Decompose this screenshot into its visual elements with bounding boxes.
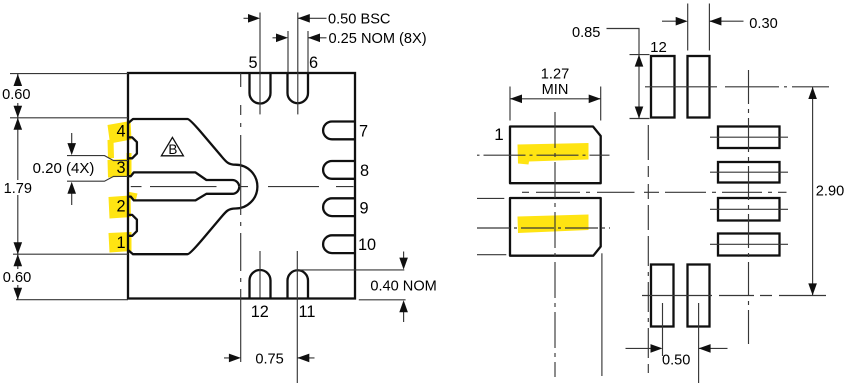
dimension 0.50 BSC bbox=[244, 17, 327, 19]
svg-text:0.75: 0.75 bbox=[255, 351, 283, 367]
pin 5 slot bbox=[250, 73, 271, 104]
svg-text:B: B bbox=[168, 142, 177, 157]
horizontal centerline left view bbox=[131, 186, 354, 188]
svg-text:2: 2 bbox=[116, 197, 125, 215]
svg-text:MIN: MIN bbox=[542, 82, 569, 98]
svg-text:0.40 NOM: 0.40 NOM bbox=[370, 278, 437, 294]
dimension 0.60 bottom bbox=[17, 254, 19, 300]
extension line package bottom bbox=[16, 299, 128, 301]
land pad 8 bbox=[718, 162, 780, 183]
svg-text:1.27: 1.27 bbox=[541, 66, 569, 82]
pin 6 centerline extension bbox=[297, 13, 299, 115]
land pad bottom left bbox=[651, 265, 674, 327]
lead bump between pins 4 and 3 bbox=[128, 137, 137, 158]
highlight pin3 label bbox=[108, 153, 132, 178]
svg-text:0.25 NOM (8X): 0.25 NOM (8X) bbox=[329, 31, 427, 47]
right pad 7 centerline bbox=[710, 136, 788, 138]
dimension 0.30 bbox=[688, 4, 710, 51]
right pads vertical centerline bbox=[748, 70, 750, 345]
top pads horizontal centerline bbox=[645, 86, 829, 88]
dimension 0.25 NOM (8X) bbox=[273, 37, 327, 39]
svg-text:9: 9 bbox=[359, 199, 368, 217]
pin 8 bbox=[323, 161, 355, 179]
right pad 9 centerline bbox=[710, 208, 788, 210]
land pad 9 bbox=[718, 198, 780, 221]
pin 5 centerline extension bbox=[259, 13, 261, 115]
land pad 11 top bbox=[688, 56, 710, 118]
svg-text:1: 1 bbox=[116, 234, 125, 252]
svg-text:0.50 BSC: 0.50 BSC bbox=[328, 11, 390, 27]
svg-text:3: 3 bbox=[116, 159, 125, 177]
svg-text:0.85: 0.85 bbox=[572, 25, 600, 41]
pin 6 edge extension lines bbox=[288, 31, 308, 73]
svg-text:11: 11 bbox=[299, 303, 316, 321]
svg-text:0.20 (4X): 0.20 (4X) bbox=[33, 160, 95, 177]
centerline pad 1 bbox=[477, 154, 480, 156]
lead bump between pins 2 and 1 bbox=[128, 215, 137, 236]
centerline pad 2 bbox=[477, 227, 610, 229]
package outline bbox=[128, 73, 355, 299]
svg-text:8: 8 bbox=[360, 162, 369, 180]
pin 12 centerline extension bbox=[259, 251, 261, 298]
pin 7 bbox=[323, 122, 355, 140]
svg-text:1: 1 bbox=[494, 125, 503, 144]
land pad bottom right bbox=[688, 265, 710, 327]
land pad 10 bbox=[718, 234, 780, 256]
extension line package top bbox=[10, 73, 128, 75]
dimension 0.50 bottom bbox=[626, 347, 728, 349]
dimension 1.79 bbox=[17, 118, 19, 254]
dimension 0.40 NOM bbox=[296, 269, 404, 271]
bottom pad right centerline bbox=[698, 303, 700, 383]
pin 6 slot bbox=[288, 73, 309, 103]
highlight pin4 label bbox=[108, 121, 132, 159]
dimension 0.75 bbox=[224, 357, 315, 359]
land pad 1 bbox=[510, 127, 601, 184]
svg-text:2.90: 2.90 bbox=[816, 184, 844, 200]
vertical centerline pads 1-2 bbox=[554, 112, 556, 377]
pin 10 bbox=[323, 235, 355, 253]
land pad 2 bbox=[510, 198, 601, 256]
extension line pad bottom bbox=[13, 253, 128, 255]
view vertical centerline bbox=[647, 125, 649, 373]
pin 11 slot bbox=[288, 270, 309, 298]
svg-text:1.79: 1.79 bbox=[4, 181, 32, 197]
svg-text:5: 5 bbox=[248, 54, 257, 72]
svg-text:10: 10 bbox=[358, 236, 376, 254]
right pad 10 centerline bbox=[710, 243, 788, 245]
pin 9 bbox=[323, 198, 355, 216]
svg-text:0.60: 0.60 bbox=[2, 87, 30, 103]
revision triangle B bbox=[161, 137, 183, 155]
extension line pad top bbox=[10, 117, 128, 119]
pin 12 slot bbox=[250, 270, 271, 299]
dimension 1.27 MIN bbox=[510, 87, 601, 121]
extension line pad 2 corner bbox=[601, 253, 603, 376]
dimension 2.90 bbox=[812, 87, 814, 295]
bottom pad left centerline bbox=[662, 303, 664, 356]
right pad 8 centerline bbox=[710, 171, 788, 173]
vertical centerline left view bbox=[240, 73, 242, 362]
highlight on land pad 2 bbox=[518, 215, 589, 234]
pin 11 centerline extension bbox=[296, 251, 298, 383]
svg-text:0.50: 0.50 bbox=[662, 353, 690, 369]
exposed thermal pad outline bbox=[128, 119, 257, 254]
svg-text:12: 12 bbox=[650, 39, 667, 56]
svg-text:0.30: 0.30 bbox=[749, 16, 777, 32]
bottom pads horizontal centerline bbox=[642, 295, 826, 297]
highlight on land pad 1 bbox=[518, 143, 589, 165]
thermal pad slot bbox=[128, 172, 239, 200]
svg-text:4: 4 bbox=[116, 123, 125, 141]
dimension 0.20 (4X) leaders bbox=[67, 156, 128, 161]
highlight pin1 label bbox=[109, 232, 132, 253]
svg-text:6: 6 bbox=[309, 54, 318, 72]
svg-text:0.60: 0.60 bbox=[3, 270, 31, 286]
extension lines pad 2 bbox=[477, 198, 506, 254]
highlight pin2 label bbox=[109, 192, 138, 219]
svg-text:12: 12 bbox=[251, 303, 269, 321]
land pad 7 bbox=[718, 127, 780, 149]
land pad 12 bbox=[651, 56, 675, 118]
dimension 0.60 top bbox=[17, 74, 19, 118]
view horizontal centerline bbox=[522, 191, 529, 193]
svg-text:7: 7 bbox=[359, 122, 368, 140]
